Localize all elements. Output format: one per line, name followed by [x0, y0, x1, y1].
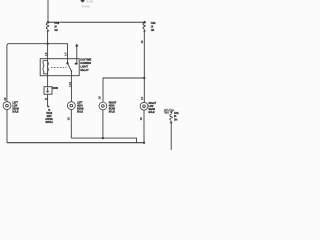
- svg-text:L9: L9: [44, 52, 48, 56]
- svg-text:18: 18: [45, 97, 49, 101]
- svg-text:10A: 10A: [174, 117, 178, 121]
- svg-text:L34: L34: [68, 82, 72, 87]
- svg-text:18: 18: [140, 40, 144, 43]
- svg-text:S134: S134: [86, 0, 93, 4]
- svg-text:10069: 10069: [52, 86, 58, 90]
- svg-text:18: 18: [3, 97, 7, 101]
- svg-text:L4: L4: [64, 52, 68, 56]
- svg-text:18: 18: [98, 96, 102, 100]
- svg-text:10A: 10A: [54, 28, 58, 32]
- svg-text:14 RD: 14 RD: [82, 4, 90, 8]
- svg-text:TIMES: TIMES: [164, 111, 169, 115]
- svg-text:18: 18: [66, 117, 70, 120]
- svg-text:10A: 10A: [151, 28, 155, 32]
- svg-text:18: 18: [140, 96, 144, 100]
- svg-text:BULB: BULB: [77, 109, 83, 113]
- svg-text:BULB: BULB: [149, 110, 155, 114]
- svg-text:BULB: BULB: [12, 109, 18, 113]
- svg-text:MODULE: MODULE: [46, 120, 53, 124]
- svg-text:BULB: BULB: [109, 109, 115, 113]
- svg-text:RELAY: RELAY: [80, 68, 88, 72]
- svg-text:18: 18: [139, 117, 143, 120]
